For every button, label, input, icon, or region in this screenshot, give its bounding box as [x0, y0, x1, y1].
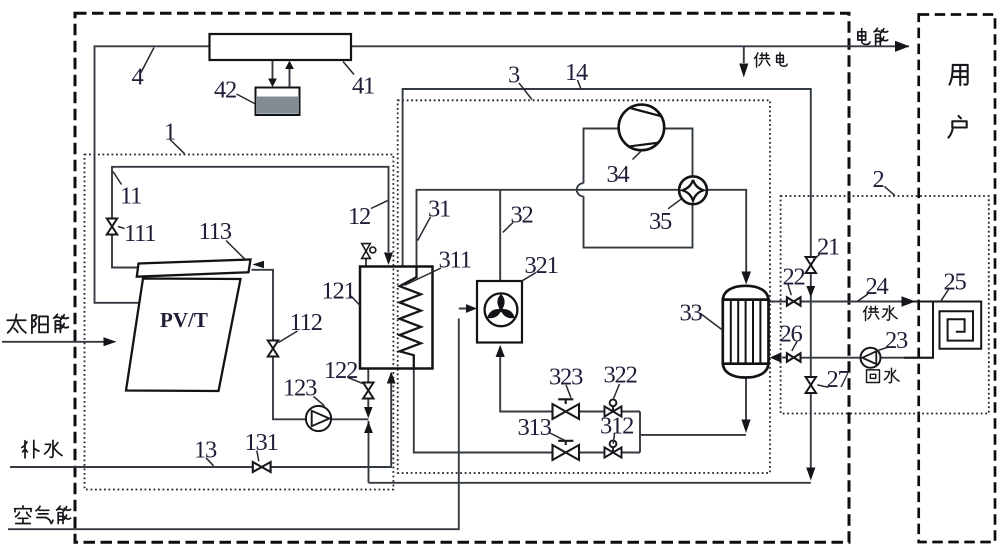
- svg-text:34: 34: [607, 161, 630, 188]
- svg-text:122: 122: [324, 357, 357, 384]
- svg-text:322: 322: [604, 362, 637, 389]
- svg-text:14: 14: [565, 59, 588, 86]
- svg-text:32: 32: [511, 202, 533, 229]
- svg-text:311: 311: [439, 247, 471, 274]
- svg-text:312: 312: [600, 413, 633, 440]
- svg-text:131: 131: [245, 429, 278, 456]
- svg-text:25: 25: [944, 269, 967, 296]
- svg-text:13: 13: [194, 437, 217, 464]
- svg-text:321: 321: [525, 252, 558, 279]
- svg-text:313: 313: [518, 414, 552, 441]
- svg-text:112: 112: [290, 309, 322, 336]
- svg-text:21: 21: [817, 234, 839, 261]
- svg-text:2: 2: [873, 166, 884, 193]
- svg-text:41: 41: [352, 73, 374, 100]
- svg-text:323: 323: [549, 364, 583, 391]
- svg-text:PV/T: PV/T: [160, 308, 208, 332]
- svg-text:31: 31: [428, 196, 450, 223]
- svg-text:35: 35: [649, 208, 672, 235]
- svg-text:1: 1: [164, 119, 175, 146]
- svg-text:123: 123: [283, 375, 317, 402]
- svg-text:4: 4: [132, 64, 144, 91]
- svg-text:3: 3: [508, 62, 520, 89]
- svg-text:11: 11: [120, 183, 141, 210]
- svg-text:27: 27: [827, 366, 850, 393]
- svg-text:12: 12: [348, 203, 370, 230]
- svg-text:24: 24: [866, 273, 889, 300]
- svg-text:26: 26: [780, 321, 803, 348]
- svg-text:111: 111: [124, 220, 155, 247]
- svg-text:33: 33: [680, 300, 703, 327]
- svg-text:22: 22: [783, 264, 805, 291]
- svg-text:113: 113: [199, 218, 232, 245]
- svg-text:42: 42: [214, 77, 236, 104]
- svg-text:121: 121: [322, 278, 355, 305]
- svg-text:23: 23: [885, 327, 908, 354]
